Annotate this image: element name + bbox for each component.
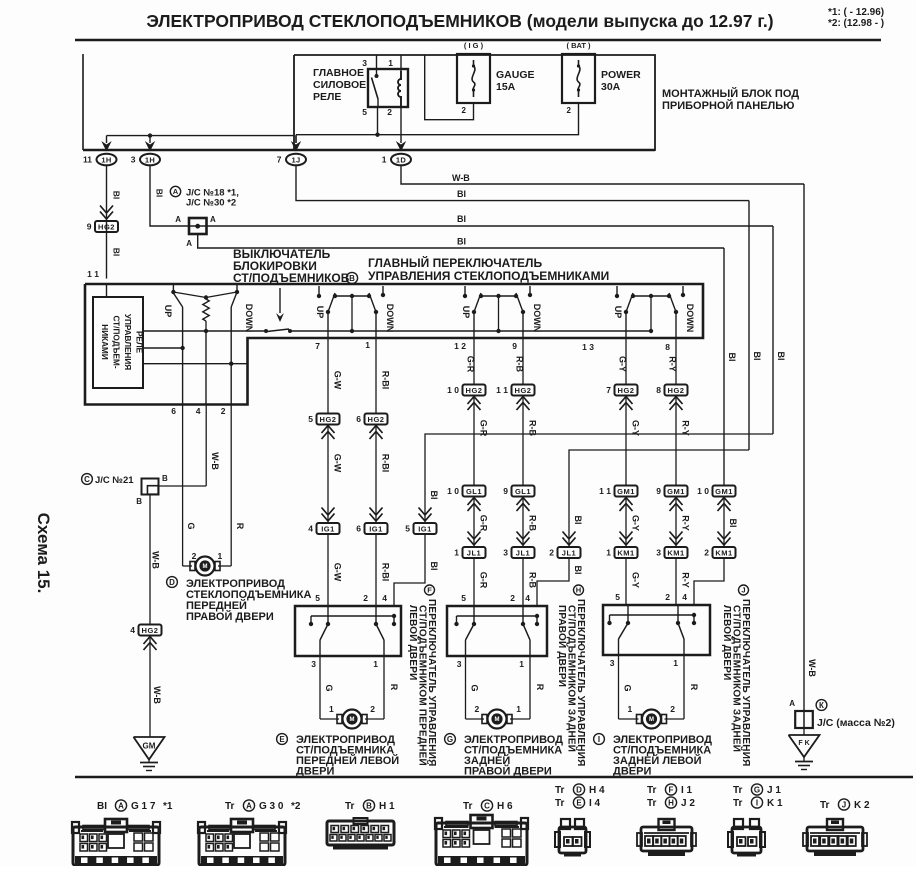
- svg-text:A: A: [186, 239, 192, 248]
- svg-text:Tr: Tr: [555, 785, 565, 796]
- svg-text:G-R: G-R: [479, 420, 489, 437]
- svg-text:GAUGE: GAUGE: [496, 69, 535, 81]
- svg-text:A: A: [789, 699, 795, 708]
- svg-text:K 1: K 1: [767, 798, 783, 809]
- svg-text:UP: UP: [613, 306, 623, 319]
- svg-text:G-Y: G-Y: [631, 515, 641, 531]
- svg-text:J 2: J 2: [681, 798, 695, 809]
- svg-text:Схема 15.: Схема 15.: [34, 513, 53, 594]
- svg-text:Bl: Bl: [728, 519, 738, 528]
- svg-text:G-Y: G-Y: [618, 356, 628, 372]
- svg-text:Tr: Tr: [225, 801, 235, 812]
- svg-text:R-B: R-B: [515, 356, 525, 372]
- svg-text:5: 5: [615, 592, 620, 602]
- svg-text:МОНТАЖНЫЙ БЛОК ПОД: МОНТАЖНЫЙ БЛОК ПОД: [662, 87, 799, 100]
- svg-text:G: G: [623, 684, 633, 691]
- svg-text:M: M: [203, 564, 208, 570]
- svg-text:G-W: G-W: [333, 563, 343, 582]
- svg-text:POWER: POWER: [601, 69, 641, 81]
- svg-text:2: 2: [510, 593, 515, 603]
- svg-text:15A: 15A: [496, 81, 516, 93]
- svg-text:1: 1: [388, 58, 393, 68]
- svg-text:1: 1: [365, 340, 370, 350]
- svg-text:1 1: 1 1: [496, 385, 508, 395]
- svg-text:1J: 1J: [292, 155, 301, 164]
- svg-text:ЭЛЕКТРОПРИВОД СТЕКЛОПОДЪЕМНИКО: ЭЛЕКТРОПРИВОД СТЕКЛОПОДЪЕМНИКОВ (модели …: [146, 11, 773, 31]
- svg-text:R-Bl: R-Bl: [381, 563, 391, 582]
- svg-text:НИКАМИ: НИКАМИ: [100, 324, 109, 360]
- svg-text:4: 4: [130, 625, 135, 635]
- svg-text:Bl: Bl: [155, 189, 165, 198]
- svg-text:R-Y: R-Y: [681, 420, 691, 436]
- svg-text:5: 5: [405, 524, 410, 534]
- svg-text:R-B: R-B: [528, 420, 538, 436]
- svg-text:( BAT ): ( BAT ): [566, 41, 591, 50]
- svg-text:G 1 7: G 1 7: [131, 801, 156, 812]
- svg-text:УПРАВЛЕНИЯ СТЕКЛОПОДЪЕМНИКАМИ: УПРАВЛЕНИЯ СТЕКЛОПОДЪЕМНИКАМИ: [368, 269, 609, 283]
- svg-text:UP: UP: [163, 305, 173, 318]
- svg-text:M: M: [350, 717, 355, 723]
- svg-text:Tr: Tr: [463, 801, 473, 812]
- svg-text:1: 1: [628, 704, 633, 714]
- svg-text:1: 1: [606, 548, 611, 558]
- svg-text:2: 2: [370, 704, 375, 714]
- svg-text:Tr: Tr: [733, 798, 743, 809]
- svg-text:1 1: 1 1: [87, 269, 99, 279]
- svg-text:J/C (масса №2): J/C (масса №2): [817, 717, 895, 729]
- svg-text:4: 4: [682, 592, 687, 602]
- svg-text:BI: BI: [457, 237, 466, 247]
- svg-text:I 4: I 4: [589, 798, 601, 809]
- svg-text:6: 6: [171, 406, 176, 416]
- svg-text:R-B: R-B: [528, 515, 538, 531]
- svg-text:G-R: G-R: [479, 515, 489, 532]
- svg-text:G-Y: G-Y: [631, 572, 641, 588]
- svg-text:3: 3: [311, 659, 316, 669]
- svg-text:R: R: [535, 684, 545, 691]
- svg-text:ЛЕВОЙ ДВЕРИ: ЛЕВОЙ ДВЕРИ: [721, 605, 734, 680]
- svg-text:4: 4: [382, 593, 387, 603]
- svg-text:1 3: 1 3: [582, 342, 594, 352]
- svg-text:HG2: HG2: [618, 386, 635, 395]
- svg-text:*1: ( - 12.96): *1: ( - 12.96): [828, 7, 884, 18]
- svg-text:2: 2: [549, 548, 554, 558]
- svg-text:J/C №30 *2: J/C №30 *2: [186, 198, 236, 209]
- svg-text:DOWN: DOWN: [385, 304, 395, 333]
- svg-text:1: 1: [673, 658, 678, 668]
- svg-text:J: J: [741, 586, 745, 595]
- svg-text:J/C №21: J/C №21: [95, 475, 134, 486]
- svg-text:JL1: JL1: [516, 549, 530, 558]
- svg-text:2: 2: [462, 106, 467, 115]
- svg-text:Bl: Bl: [727, 353, 737, 362]
- svg-text:W-B: W-B: [807, 659, 817, 677]
- svg-text:G: G: [470, 684, 480, 691]
- svg-text:А: А: [118, 801, 124, 810]
- svg-text:Tr: Tr: [555, 798, 565, 809]
- svg-text:( I G ): ( I G ): [464, 41, 484, 50]
- svg-text:KM1: KM1: [715, 549, 732, 558]
- svg-text:R-Y: R-Y: [668, 356, 678, 372]
- svg-text:GM1: GM1: [617, 487, 635, 496]
- svg-text:G: G: [186, 522, 196, 529]
- svg-text:B: B: [136, 497, 142, 506]
- svg-text:GM1: GM1: [715, 487, 733, 496]
- svg-text:IG1: IG1: [369, 525, 383, 534]
- svg-text:1H: 1H: [145, 155, 155, 164]
- svg-text:H 6: H 6: [497, 801, 513, 812]
- svg-text:С: С: [484, 801, 490, 810]
- svg-text:GL1: GL1: [515, 487, 531, 496]
- svg-text:HG2: HG2: [466, 386, 483, 395]
- svg-text:4: 4: [308, 524, 313, 534]
- svg-text:1: 1: [329, 704, 334, 714]
- svg-text:HG2: HG2: [668, 386, 685, 395]
- svg-text:2: 2: [704, 548, 709, 558]
- svg-text:8: 8: [656, 385, 661, 395]
- svg-text:GM: GM: [143, 742, 156, 751]
- svg-text:W-B: W-B: [152, 686, 162, 704]
- svg-text:A: A: [175, 215, 181, 224]
- svg-text:8: 8: [665, 342, 670, 352]
- svg-text:UP: UP: [461, 306, 471, 319]
- svg-text:Tr: Tr: [647, 785, 657, 796]
- svg-text:1: 1: [454, 548, 459, 558]
- svg-text:W-B: W-B: [151, 551, 161, 569]
- svg-text:2: 2: [363, 593, 368, 603]
- svg-text:2: 2: [192, 551, 197, 561]
- svg-text:2: 2: [475, 704, 480, 714]
- svg-text:J: J: [842, 800, 846, 809]
- svg-text:G-W: G-W: [333, 371, 343, 390]
- svg-text:F: F: [669, 785, 674, 794]
- svg-text:УПРАВЛЕНИЯ: УПРАВЛЕНИЯ: [123, 314, 132, 370]
- svg-text:*2: *2: [291, 801, 301, 812]
- svg-text:А: А: [173, 187, 179, 196]
- svg-text:R: R: [689, 684, 699, 691]
- svg-text:С: С: [84, 475, 90, 484]
- svg-text:JL1: JL1: [562, 549, 576, 558]
- svg-text:DOWN: DOWN: [532, 304, 542, 333]
- svg-text:1 1: 1 1: [599, 486, 611, 496]
- svg-text:1H: 1H: [101, 155, 111, 164]
- svg-text:2: 2: [670, 704, 675, 714]
- svg-text:4: 4: [525, 593, 530, 603]
- svg-text:BI: BI: [457, 189, 466, 199]
- svg-text:ДВЕРИ: ДВЕРИ: [296, 766, 334, 778]
- svg-text:I: I: [598, 735, 600, 744]
- svg-text:1D: 1D: [396, 155, 406, 164]
- svg-text:РЕЛЕ: РЕЛЕ: [313, 91, 341, 103]
- svg-text:РЕЛЕ: РЕЛЕ: [135, 331, 144, 354]
- svg-text:1 0: 1 0: [447, 486, 459, 496]
- svg-text:JL1: JL1: [467, 549, 481, 558]
- svg-text:R-Bl: R-Bl: [381, 454, 391, 473]
- svg-text:ПРИБОРНОЙ ПАНЕЛЬЮ: ПРИБОРНОЙ ПАНЕЛЬЮ: [662, 99, 795, 112]
- svg-text:F: F: [427, 586, 432, 595]
- svg-text:G-R: G-R: [466, 356, 476, 373]
- svg-text:Bl: Bl: [429, 491, 439, 500]
- svg-text:H 4: H 4: [589, 785, 605, 796]
- svg-text:4: 4: [196, 406, 201, 416]
- svg-text:R-B: R-B: [528, 572, 538, 588]
- svg-text:2: 2: [387, 107, 392, 117]
- svg-text:IG1: IG1: [321, 525, 335, 534]
- svg-text:1: 1: [217, 551, 222, 561]
- svg-text:KM1: KM1: [667, 549, 684, 558]
- svg-text:1 2: 1 2: [454, 341, 466, 351]
- svg-text:Bl: Bl: [573, 566, 583, 575]
- svg-text:3: 3: [457, 659, 462, 669]
- svg-text:9: 9: [512, 341, 517, 351]
- svg-text:Bl: Bl: [573, 516, 583, 525]
- svg-text:M: M: [495, 717, 500, 723]
- svg-text:Bl: Bl: [112, 248, 122, 257]
- svg-text:D: D: [576, 785, 582, 794]
- svg-text:GM1: GM1: [667, 487, 685, 496]
- svg-text:6: 6: [356, 414, 361, 424]
- svg-text:5: 5: [461, 593, 466, 603]
- svg-text:Tr: Tr: [345, 801, 355, 812]
- svg-text:3: 3: [656, 548, 661, 558]
- svg-text:DOWN: DOWN: [685, 304, 695, 333]
- svg-text:H 1: H 1: [379, 801, 395, 812]
- svg-text:K 2: K 2: [854, 800, 870, 811]
- svg-text:Е: Е: [279, 735, 285, 744]
- svg-text:*1: *1: [163, 801, 173, 812]
- svg-text:Tr: Tr: [647, 798, 657, 809]
- svg-text:G 3 0: G 3 0: [259, 801, 284, 812]
- svg-text:1 0: 1 0: [447, 385, 459, 395]
- svg-text:1: 1: [382, 155, 387, 165]
- svg-text:W-B: W-B: [452, 173, 470, 183]
- svg-text:2: 2: [221, 406, 226, 416]
- svg-text:R-Bl: R-Bl: [381, 371, 391, 390]
- svg-text:5: 5: [315, 593, 320, 603]
- svg-text:Tr: Tr: [820, 800, 830, 811]
- svg-text:СИЛОВОЕ: СИЛОВОЕ: [313, 79, 366, 91]
- svg-text:1: 1: [516, 704, 521, 714]
- svg-text:HG2: HG2: [368, 415, 385, 424]
- svg-text:R: R: [235, 523, 245, 530]
- svg-text:ДВЕРИ: ДВЕРИ: [613, 766, 651, 778]
- svg-text:HG2: HG2: [142, 626, 159, 635]
- svg-text:*2: (12.98 - ): *2: (12.98 - ): [828, 18, 884, 29]
- svg-text:J 1: J 1: [767, 785, 781, 796]
- svg-text:ЛЕВОЙ ДВЕРИ: ЛЕВОЙ ДВЕРИ: [407, 605, 420, 680]
- svg-text:BI: BI: [97, 801, 107, 812]
- svg-text:7: 7: [606, 385, 611, 395]
- svg-text:HG2: HG2: [320, 415, 337, 424]
- svg-text:30A: 30A: [601, 81, 621, 93]
- svg-text:3: 3: [131, 155, 136, 165]
- svg-text:I: I: [756, 798, 758, 807]
- svg-text:ПРАВОЙ ДВЕРИ: ПРАВОЙ ДВЕРИ: [464, 765, 552, 778]
- svg-text:Е: Е: [576, 798, 582, 807]
- svg-text:HG2: HG2: [515, 386, 532, 395]
- svg-text:К: К: [819, 701, 824, 710]
- svg-text:G: G: [754, 785, 760, 794]
- svg-text:IG1: IG1: [418, 525, 432, 534]
- svg-text:3: 3: [503, 548, 508, 558]
- svg-text:9: 9: [656, 486, 661, 496]
- svg-text:1: 1: [373, 659, 378, 669]
- svg-text:A: A: [210, 215, 216, 224]
- svg-text:Bl: Bl: [429, 562, 439, 571]
- svg-text:G-Y: G-Y: [631, 420, 641, 436]
- svg-text:I 1: I 1: [681, 785, 693, 796]
- svg-text:R: R: [389, 684, 399, 691]
- svg-text:1: 1: [519, 659, 524, 669]
- svg-text:ПРАВОЙ ДВЕРИ: ПРАВОЙ ДВЕРИ: [556, 605, 569, 687]
- svg-text:7: 7: [277, 155, 282, 165]
- svg-text:2: 2: [665, 592, 670, 602]
- svg-text:G-W: G-W: [333, 454, 343, 473]
- svg-text:R-Y: R-Y: [681, 515, 691, 531]
- svg-text:7: 7: [315, 341, 320, 351]
- svg-text:G: G: [447, 735, 453, 744]
- svg-text:Tr: Tr: [733, 785, 743, 796]
- svg-text:G-R: G-R: [479, 572, 489, 589]
- svg-text:W-B: W-B: [210, 452, 220, 470]
- svg-text:ГЛАВНОЕ: ГЛАВНОЕ: [313, 67, 364, 79]
- svg-text:D: D: [169, 578, 175, 587]
- svg-text:Bl: Bl: [776, 352, 786, 361]
- svg-text:Bl: Bl: [112, 191, 122, 200]
- svg-text:KM1: KM1: [617, 549, 634, 558]
- svg-text:3: 3: [610, 658, 615, 668]
- svg-text:B: B: [162, 474, 168, 483]
- svg-text:BI: BI: [457, 214, 466, 224]
- svg-text:5: 5: [362, 107, 367, 117]
- svg-text:А: А: [246, 801, 252, 810]
- svg-text:9: 9: [87, 222, 92, 232]
- svg-text:ПРАВОЙ ДВЕРИ: ПРАВОЙ ДВЕРИ: [186, 610, 274, 623]
- svg-text:M: M: [649, 717, 654, 723]
- svg-text:1 0: 1 0: [697, 486, 709, 496]
- svg-text:9: 9: [503, 486, 508, 496]
- svg-text:11: 11: [83, 155, 92, 165]
- svg-text:G: G: [324, 684, 334, 691]
- svg-text:5: 5: [308, 414, 313, 424]
- svg-text:Н: Н: [576, 586, 581, 595]
- svg-text:В: В: [349, 274, 355, 283]
- svg-text:GL1: GL1: [466, 487, 482, 496]
- svg-text:F K: F K: [798, 740, 809, 747]
- svg-text:Н: Н: [668, 798, 674, 807]
- svg-text:СТ/ПОДЪЕМ-: СТ/ПОДЪЕМ-: [112, 315, 121, 368]
- svg-text:2: 2: [567, 106, 572, 115]
- svg-text:6: 6: [356, 524, 361, 534]
- svg-text:ГЛАВНЫЙ ПЕРЕКЛЮЧАТЕЛЬ: ГЛАВНЫЙ ПЕРЕКЛЮЧАТЕЛЬ: [368, 255, 542, 270]
- svg-text:R-Y: R-Y: [681, 572, 691, 588]
- svg-text:UP: UP: [315, 306, 325, 319]
- svg-text:HG2: HG2: [98, 223, 115, 232]
- svg-text:DOWN: DOWN: [244, 304, 254, 333]
- svg-text:Bl: Bl: [752, 352, 762, 361]
- svg-text:В: В: [366, 801, 372, 810]
